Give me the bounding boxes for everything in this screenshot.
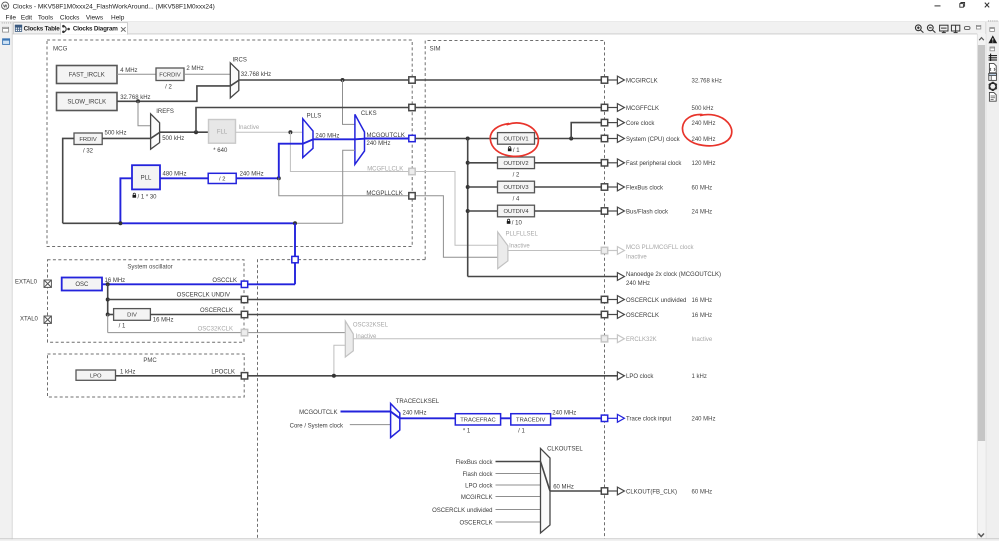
mux IREFS (151, 114, 160, 149)
wire FRDIV input (63, 138, 74, 223)
close button (985, 3, 989, 8)
svg-text:/ 4: / 4 (513, 197, 520, 203)
wire MCGIRCLK (239, 79, 602, 81)
vertical scrollbar track (977, 34, 986, 541)
wire SLOW_IRCLK to IRCS (117, 86, 230, 101)
svg-text:4 MHz: 4 MHz (120, 68, 137, 74)
svg-text:32.768 kHz: 32.768 kHz (692, 78, 722, 84)
svg-text:OSC32KSEL: OSC32KSEL (353, 322, 389, 328)
svg-text:MCG: MCG (53, 46, 68, 53)
output Core clock (601, 119, 607, 125)
svg-text:LPO clock: LPO clock (626, 374, 654, 380)
corner mini icons (976, 25, 980, 29)
wire TRACEFRAC to TRACEDIV (501, 417, 511, 419)
divider / 2 (208, 173, 236, 183)
menu separator line (0, 21, 999, 23)
wire OSC32KCLK (108, 332, 346, 334)
pin icon (990, 47, 995, 51)
junction FLL out (288, 130, 292, 134)
block FLL inactive (209, 120, 236, 144)
port MCGFLLCLK mcg (409, 168, 415, 174)
wire MCGFLLCLK (290, 132, 409, 171)
wire clkout input LPO clock (496, 484, 541, 486)
wire slow to IREFS (138, 101, 151, 126)
svg-text:System oscillator: System oscillator (127, 264, 172, 270)
restore button (960, 4, 964, 8)
app icon (2, 2, 9, 9)
svg-text:/ 1: / 1 (119, 324, 126, 330)
wire div2 to junction (236, 177, 279, 179)
svg-text:XTAL0: XTAL0 (20, 317, 39, 323)
wire OSCCLK distribution dark (63, 222, 121, 224)
port MCGOUTCLK mcg (409, 135, 415, 141)
svg-text:FlexBus clock: FlexBus clock (455, 460, 493, 466)
wire div in (108, 314, 114, 316)
svg-text:240 MHz: 240 MHz (692, 137, 716, 143)
divider FRDIV (74, 133, 102, 145)
settings gear icon (988, 82, 997, 91)
svg-text:/ 1: / 1 (513, 148, 520, 154)
svg-text:PMC: PMC (143, 358, 157, 364)
wire clkout input MCGIRCLK (496, 496, 541, 498)
svg-text:ERCLK32K: ERCLK32K (626, 337, 657, 343)
junction MCGFFCLK (194, 130, 198, 134)
source file icon (989, 63, 996, 72)
svg-text:240 MHz: 240 MHz (626, 281, 650, 287)
svg-text:CLKOUT(FB_CLK): CLKOUT(FB_CLK) (626, 489, 677, 495)
wire MCGFFCLK (196, 108, 601, 133)
wire trace core system (350, 424, 391, 426)
svg-text:FCRDIV: FCRDIV (159, 72, 181, 78)
MCG group box (47, 40, 412, 247)
block FAST_IRCLK (57, 66, 118, 84)
minimize view icon (964, 27, 970, 30)
wire ERCLK32K (353, 338, 601, 340)
svg-text:Clocks Diagram: Clocks Diagram (73, 26, 118, 33)
output Nanoedge 2x clock (617, 273, 624, 281)
svg-text:OSC: OSC (75, 282, 89, 288)
wire PLL to div2 (160, 177, 208, 179)
wire clkout input Flash clock (496, 473, 541, 475)
svg-text:OSCERCLK undivided: OSCERCLK undivided (432, 508, 492, 514)
wire to PLLS bottom (279, 144, 303, 179)
junction OUTDIV column top (466, 137, 470, 141)
divider OUTDIV3 (498, 181, 535, 193)
junction OSCCLK riser (293, 221, 297, 225)
wire clkout input FlexBus clock (496, 461, 541, 463)
vertical scrollbar up arrow (979, 38, 984, 41)
svg-text:500 kHz: 500 kHz (162, 136, 184, 142)
svg-text:/ 1: / 1 (518, 429, 525, 435)
svg-text:IRCS: IRCS (233, 58, 247, 64)
svg-text:OUTDIV3: OUTDIV3 (503, 185, 528, 191)
svg-text:OUTDIV1: OUTDIV1 (503, 137, 528, 143)
mux PLLS (303, 119, 313, 158)
divider OUTDIV4 (498, 205, 535, 217)
svg-text:/ 2: / 2 (165, 84, 172, 90)
svg-text:240 MHz: 240 MHz (240, 171, 264, 177)
wire OSCERCLK UNDIV (108, 299, 602, 301)
output OSCERCLK (601, 311, 607, 317)
port OSC32KCLK oscbox (241, 329, 247, 335)
wire OUTDIV3 in (468, 186, 498, 188)
wire OUTDIV3 out (535, 186, 602, 188)
wire trace mcgoutclk (341, 411, 391, 413)
port OSCCLK sim boundary (292, 256, 298, 262)
svg-text:OSC32KCLK: OSC32KCLK (198, 326, 233, 332)
output MCG PLL/MCGFLL clock (601, 247, 607, 253)
registers icon (989, 54, 997, 61)
fit to screen icon (940, 25, 948, 32)
svg-text:240 MHz: 240 MHz (692, 417, 716, 423)
block OSC (62, 278, 102, 291)
junction osc out (106, 282, 110, 286)
svg-text:Trace clock input: Trace clock input (626, 417, 671, 423)
svg-text:Views: Views (86, 15, 104, 22)
wire MCGIRCLK to CLKS top (343, 80, 355, 124)
wire TRACEDIV to port (551, 417, 602, 419)
svg-text:OSCERCLK: OSCERCLK (626, 313, 659, 319)
svg-text:MCGIRCLK: MCGIRCLK (461, 495, 493, 501)
svg-text:Inactive: Inactive (692, 337, 713, 343)
svg-text:32.768 kHz: 32.768 kHz (120, 95, 150, 101)
svg-text:* 640: * 640 (213, 148, 228, 154)
wire MCGPLLCLK reroute (415, 196, 498, 257)
right icon panel (986, 22, 999, 541)
block PLL (132, 165, 160, 189)
left strip restore icon (3, 27, 9, 32)
svg-text:MCGPLLCLK: MCGPLLCLK (366, 191, 402, 197)
svg-text:Clocks: Clocks (60, 15, 80, 22)
svg-text:LPOCLK: LPOCLK (211, 369, 235, 375)
tab strip background (0, 22, 999, 34)
junction div in (106, 313, 110, 317)
svg-text:OSCCLK: OSCCLK (212, 278, 237, 284)
svg-text:File: File (6, 15, 17, 22)
tab bar bottom border (12, 33, 977, 35)
wire osc vertical (107, 284, 109, 314)
label PLL lock / 1 * 30 (133, 193, 135, 195)
svg-text:Clocks - MKV58F1M0xxx24_FlashW: Clocks - MKV58F1M0xxx24_FlashWorkAround.… (13, 3, 215, 10)
svg-text:240 MHz: 240 MHz (315, 134, 339, 140)
output MCGIRCLK (601, 77, 607, 83)
svg-text:CLKS: CLKS (361, 111, 377, 117)
wire OSCCLK distribution grey (295, 222, 343, 224)
mux CLKS (355, 114, 365, 164)
junction slow irclk (136, 99, 140, 103)
right panel dotted handle (988, 20, 998, 21)
svg-text:PLLFLLSEL: PLLFLLSEL (506, 231, 539, 237)
divider OUTDIV2 (498, 157, 535, 169)
wire OSCCLK (102, 283, 295, 285)
block LPO (76, 370, 116, 380)
clocks diagram active tab (61, 23, 128, 35)
wire CLKS bottom input (343, 150, 355, 223)
wire IREFS out to FLL (160, 131, 209, 133)
wire OUTDIV4 out (535, 210, 602, 212)
svg-text:/ 2: / 2 (513, 172, 520, 178)
svg-text:OSCERCLK: OSCERCLK (200, 308, 233, 314)
svg-text:500 kHz: 500 kHz (692, 106, 714, 112)
wire PLL input (120, 178, 132, 223)
svg-text:24 MHz: 24 MHz (692, 209, 713, 215)
label OUTDIV4 lock / 10 (508, 219, 510, 221)
wire OSCCLK riser (294, 223, 296, 284)
svg-text:MCGOUTCLK: MCGOUTCLK (299, 410, 337, 416)
System oscillator group box (48, 260, 245, 342)
divider FCRDIV (156, 68, 184, 81)
svg-text:OSCERCLK: OSCERCLK (459, 520, 492, 526)
svg-text:Inactive: Inactive (626, 254, 647, 260)
svg-text:OUTDIV2: OUTDIV2 (503, 161, 528, 167)
clocks table tab (14, 23, 61, 34)
annotation circle 240MHz values (682, 115, 731, 146)
svg-text:240 MHz: 240 MHz (692, 121, 716, 127)
zoom out icon (927, 25, 935, 33)
wire MCGPLLCLK (279, 178, 409, 196)
svg-text:240 MHz: 240 MHz (367, 141, 391, 147)
minimize button (935, 5, 941, 7)
svg-text:FAST_IRCLK: FAST_IRCLK (69, 73, 105, 79)
clocks diagram tab icon (62, 25, 70, 33)
junction OUTDIV2 in (466, 161, 470, 165)
svg-text:Fast peripheral clock: Fast peripheral clock (626, 161, 682, 167)
junction lpo osc32ksel (332, 374, 336, 378)
mux TRACECLKSEL (391, 404, 400, 438)
wire OUTDIV2 out (535, 162, 602, 164)
svg-text:16 MHz: 16 MHz (692, 313, 713, 319)
wire trace to TRACEFRAC (400, 417, 456, 419)
PMC group box (48, 354, 245, 397)
junction MCGIRCLK to CLKS (341, 78, 345, 82)
vertical scrollbar thumb (978, 45, 985, 441)
left strip dotted handle (2, 22, 12, 23)
log file icon (989, 92, 996, 101)
svg-text:CLKOUTSEL: CLKOUTSEL (547, 447, 583, 453)
svg-text:MCGOUTCLK: MCGOUTCLK (367, 133, 405, 139)
svg-text:Edit: Edit (21, 15, 32, 22)
svg-text:MCGFFCLK: MCGFFCLK (626, 106, 659, 112)
left sidebar strip (0, 22, 12, 541)
svg-text:240 MHz: 240 MHz (552, 411, 576, 417)
mux IRCS (230, 63, 239, 98)
svg-text:Clocks Table: Clocks Table (24, 26, 61, 33)
svg-text:OUTDIV4: OUTDIV4 (503, 209, 529, 215)
divider OUTDIV1 (498, 133, 535, 145)
window title bar (0, 0, 999, 13)
vertical scrollbar down arrow (978, 534, 984, 537)
svg-text:* 1: * 1 (463, 429, 471, 435)
wire clkout input OSCERCLK (496, 521, 541, 523)
wire OSCERCLK (150, 314, 601, 316)
junction OUTDIV3 in (466, 185, 470, 189)
svg-text:PLLS: PLLS (307, 113, 322, 119)
label OUTDIV1 lock / 1 (509, 147, 511, 149)
wire osc 32k vertical (107, 315, 109, 333)
svg-text:240 MHz: 240 MHz (403, 411, 427, 417)
svg-text:MCGIRCLK: MCGIRCLK (626, 78, 658, 84)
svg-text:480 MHz: 480 MHz (163, 171, 187, 177)
mux CLKOUTSEL (541, 448, 551, 533)
svg-text:60 MHz: 60 MHz (692, 489, 713, 495)
junction core clock (569, 137, 573, 141)
svg-text:16 MHz: 16 MHz (153, 317, 174, 323)
svg-text:LPO clock: LPO clock (465, 483, 493, 489)
svg-text:60 MHz: 60 MHz (553, 484, 574, 490)
wire FCRDIV to IRCS (184, 73, 230, 75)
wire FRDIV to IREFS (102, 137, 150, 139)
divider TRACEFRAC (455, 414, 500, 425)
svg-text:2 MHz: 2 MHz (186, 66, 203, 72)
reset zoom icon (951, 25, 959, 32)
svg-text:System (CPU) clock: System (CPU) clock (626, 137, 681, 143)
output ERCLK32K (601, 336, 607, 342)
annotation circle OUTDIV1 (490, 123, 538, 156)
svg-text:Core / System clock: Core / System clock (290, 423, 344, 429)
output LPO clock (617, 372, 624, 380)
port MCGPLLCLK mcg (409, 193, 415, 199)
output System (CPU) clock (601, 135, 607, 141)
left strip minimized view icon (3, 39, 10, 45)
svg-text:MCGFLLCLK: MCGFLLCLK (367, 167, 403, 173)
output MCGFFCLK (601, 104, 607, 110)
wire PLLS to CLKS (313, 138, 355, 140)
wire OSCCLK distribution blue (120, 222, 295, 224)
port LPOCLK pmc (241, 373, 247, 379)
wire MCGOUTCLK sim (415, 138, 497, 140)
right panel restore icon (990, 28, 995, 32)
svg-text:/ 2: / 2 (219, 177, 225, 183)
svg-text:1 kHz: 1 kHz (120, 369, 135, 375)
wire OUTDIV2 in (468, 162, 498, 164)
wire LPO clock (116, 375, 618, 377)
svg-text:Nanoedge 2x clock (MCGOUTCLK): Nanoedge 2x clock (MCGOUTCLK) (626, 272, 721, 278)
clocks table tab icon (15, 25, 21, 31)
junction OUTDIV4 in (466, 209, 470, 213)
svg-text:/ 32: / 32 (83, 149, 94, 155)
divider TRACEDIV (511, 414, 551, 425)
divider DIV (114, 309, 151, 321)
wire PLLFLLSEL out (508, 250, 601, 252)
svg-text:Tools: Tools (38, 15, 54, 22)
svg-text:FRDIV: FRDIV (79, 137, 97, 143)
mux PLLFLLSEL (498, 232, 508, 269)
wire OSC32KSEL bottom input (334, 345, 345, 376)
port OSCCLK oscbox (241, 281, 247, 287)
svg-text:SLOW_IRCLK: SLOW_IRCLK (67, 100, 106, 106)
svg-text:OSCERCLK undivided: OSCERCLK undivided (626, 298, 686, 304)
zoom in icon (915, 25, 923, 33)
svg-text:120 MHz: 120 MHz (692, 161, 716, 167)
wire MCGOUTCLK blue (365, 138, 409, 140)
svg-text:MCG PLL/MCGFLL clock: MCG PLL/MCGFLL clock (626, 245, 694, 251)
svg-text:1 kHz: 1 kHz (692, 374, 707, 380)
port MCGFFCLK mcg (409, 104, 415, 110)
clocks diagram tab close icon (121, 27, 126, 31)
wire MCGFLLCLK reroute (415, 172, 498, 246)
canvas bottom edge (0, 538, 999, 540)
svg-text:Flash clock: Flash clock (462, 472, 493, 478)
wire OUTDIV1 out (535, 138, 602, 140)
wire FAST_IRCLK to FCRDIV (117, 73, 156, 75)
svg-text:FlexBus clock: FlexBus clock (626, 185, 664, 191)
output FlexBus clock (601, 184, 607, 190)
registers table icon (989, 73, 997, 80)
svg-text:Bus/Flash clock: Bus/Flash clock (626, 209, 669, 215)
svg-text:Inactive: Inactive (239, 125, 260, 131)
port OSCERCLK oscbox (241, 311, 247, 317)
svg-text:EXTAL0: EXTAL0 (15, 280, 38, 286)
svg-text:TRACEFRAC: TRACEFRAC (460, 418, 495, 424)
svg-text:32.768 kHz: 32.768 kHz (241, 72, 271, 78)
svg-text:Core clock: Core clock (626, 121, 655, 127)
wire CLKOUT (550, 490, 601, 492)
wire OUTDIV column (467, 139, 469, 277)
wire clkout input OSCERCLK undivided (496, 509, 541, 511)
junction OSCCLK pll (118, 221, 122, 225)
output Trace clock input (601, 415, 607, 421)
svg-text:PLL: PLL (141, 176, 152, 182)
wire FLL out (236, 131, 303, 133)
svg-text:LPO: LPO (90, 373, 102, 379)
wire nanoedge (468, 276, 618, 278)
svg-text:FLL: FLL (217, 130, 228, 136)
svg-text:TRACEDIV: TRACEDIV (516, 418, 545, 424)
port MCGIRCLK mcg (409, 77, 415, 83)
warning icon (988, 35, 997, 43)
junction PLL 240MHz (277, 176, 281, 180)
svg-text:16 MHz: 16 MHz (692, 298, 713, 304)
svg-text:/ 10: / 10 (512, 221, 523, 227)
svg-text:60 MHz: 60 MHz (692, 185, 713, 191)
mux OSC32KSEL (345, 321, 353, 357)
port OSCERCLK UNDIV oscbox (241, 296, 247, 302)
svg-text:500 kHz: 500 kHz (105, 131, 127, 137)
svg-text:SIM: SIM (430, 46, 441, 53)
junction oscerclk undiv (106, 298, 110, 302)
svg-text:OSCERCLK UNDIV: OSCERCLK UNDIV (177, 293, 230, 299)
wire OUTDIV4 in (468, 210, 498, 212)
block SLOW_IRCLK (57, 93, 118, 111)
output Bus/Flash clock (601, 208, 607, 214)
svg-text:DIV: DIV (127, 313, 137, 319)
SIM group box (258, 41, 605, 539)
svg-text:Help: Help (111, 15, 125, 22)
wire core clock (571, 123, 601, 139)
output CLKOUT(FB_CLK) (601, 488, 607, 494)
svg-text:/ 1 * 30: / 1 * 30 (138, 194, 158, 200)
svg-text:TRACECLKSEL: TRACECLKSEL (396, 399, 440, 405)
output Fast peripheral clock (601, 160, 607, 166)
svg-text:IREFS: IREFS (156, 109, 174, 115)
output OSCERCLK undivided (601, 296, 607, 302)
svg-text:Inactive: Inactive (509, 244, 530, 250)
